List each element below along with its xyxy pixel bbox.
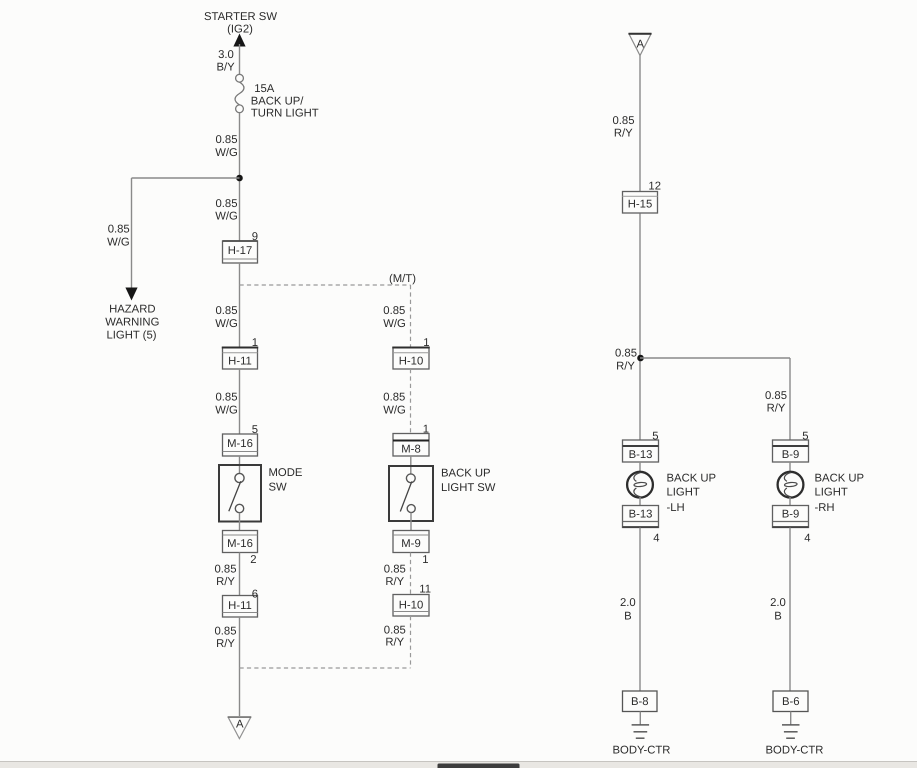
BACK UP LIGHT -RH label [815,473,865,515]
svg-text:LIGHT SW: LIGHT SW [441,482,496,494]
scrollbar track [0,762,917,768]
wire H-11 down to connector A [239,617,241,716]
svg-text:HAZARD: HAZARD [109,304,155,316]
wire label 2.0 B right [770,597,786,623]
connector B-8 [623,691,658,712]
svg-text:12: 12 [648,181,661,193]
svg-text:(M/T): (M/T) [389,273,416,285]
wire M-16 to H-11 pin 6 [239,553,241,596]
svg-text:0.85: 0.85 [215,626,237,638]
svg-text:MODE: MODE [269,467,303,479]
connector B-9 upper [773,440,809,462]
wire label 0.85 W/G above M-16 [215,392,238,417]
connector H-15 [623,192,658,214]
wire label 0.85 R/Y above H-11 [215,564,237,589]
svg-text:LIGHT (5): LIGHT (5) [106,330,156,342]
connector B-9 lower [773,506,809,528]
svg-text:W/G: W/G [215,318,238,330]
wire horizontal to hazard branch [132,177,240,179]
wire label 0.85 R/Y below H-11 [215,626,237,651]
svg-text:B/Y: B/Y [216,62,235,74]
wire H-17 to H-11 [239,263,241,348]
wire label 0.85 W/G above M-8 [383,392,406,417]
svg-text:BODY-CTR: BODY-CTR [613,745,671,757]
svg-text:R/Y: R/Y [216,638,235,650]
lamp BACK UP LIGHT -RH [778,472,804,498]
svg-text:A: A [236,719,244,731]
wire A to H-15 [639,56,641,192]
connector B-13 lower [623,506,659,528]
wire fuse to H-17 [239,113,241,241]
inter-page connector A bottom [228,717,252,739]
svg-text:-LH: -LH [667,502,685,514]
connector H-11 lower [223,596,258,618]
svg-text:15A: 15A [254,83,275,95]
svg-text:WARNING: WARNING [105,317,159,329]
svg-text:B-6: B-6 [782,696,800,708]
svg-text:W/G: W/G [215,405,238,417]
svg-text:-RH: -RH [815,502,835,514]
wire H-15 to B-13 [639,214,641,441]
wire bulb to B-9 lower [789,497,791,506]
connector B-6 [773,691,808,712]
svg-text:0.85: 0.85 [615,348,637,360]
switch MODE SW [219,465,261,522]
wire bulb to B-13 lower [639,497,641,506]
svg-text:R/Y: R/Y [767,403,786,415]
svg-text:W/G: W/G [383,405,406,417]
wire label 0.85 W/G above H-10 [383,305,406,330]
wire RH branch down to B-9 [789,358,791,440]
wire label 0.85 R/Y [613,115,635,140]
connector M-16 upper [223,434,258,456]
ground BODY-CTR right [782,712,800,739]
svg-text:2: 2 [250,554,256,566]
wire B-13 to bulb [639,462,641,472]
wire label 2.0 B left [620,597,636,623]
wire B-9 to bulb [789,462,791,472]
svg-text:STARTER SW: STARTER SW [204,11,277,23]
wire label 3.0 B/Y [216,49,235,74]
svg-text:B: B [774,611,782,623]
svg-text:B-9: B-9 [782,449,800,461]
svg-text:R/Y: R/Y [385,637,404,649]
svg-text:W/G: W/G [215,211,238,223]
wire dashed M-9 to H-10 pin 11 [410,553,412,595]
svg-text:4: 4 [804,533,810,545]
svg-text:0.85: 0.85 [216,305,238,317]
node HAZARD WARNING LIGHT (5) label [105,304,159,342]
wire dashed M/T branch horizontal [240,284,411,286]
wire label 0.85 R/Y at junction [615,348,637,373]
svg-text:M-16: M-16 [227,438,253,450]
svg-text:BACK UP/: BACK UP/ [251,95,305,107]
svg-text:SW: SW [269,482,288,494]
inter-page connector A top [629,34,652,56]
wire H-11 to M-16 [239,369,241,434]
lamp BACK UP LIGHT -LH [627,472,653,498]
svg-text:0.85: 0.85 [216,198,238,210]
arrow to hazard warning light [125,288,137,301]
connector B-13 upper [623,440,659,462]
svg-text:LIGHT: LIGHT [667,487,700,499]
wire label 0.85 W/G hazard branch [107,224,130,249]
svg-text:LIGHT: LIGHT [815,487,848,499]
wire B-9 to B-6 [789,528,791,692]
svg-text:H-15: H-15 [628,199,653,211]
MODE SW label [269,467,303,494]
wire mode sw to M-16 lower [239,513,241,531]
wire M-16 to mode sw [239,456,241,473]
svg-text:H-10: H-10 [399,600,424,612]
wire label 0.85 R/Y above H-10 [384,564,406,589]
svg-text:B-13: B-13 [629,509,653,521]
svg-text:H-17: H-17 [228,245,253,257]
svg-text:W/G: W/G [215,147,238,159]
svg-text:W/G: W/G [107,237,130,249]
switch BACK UP LIGHT SW [389,466,433,521]
wire dashed joining main wire [240,667,411,669]
ground BODY-CTR left [632,712,650,739]
connector H-10 [392,348,429,370]
fuse 15A BACK UP/TURN LIGHT [235,74,244,112]
wire starter sw to fuse [239,44,241,75]
svg-text:H-10: H-10 [399,356,424,368]
svg-text:BACK UP: BACK UP [667,473,717,485]
svg-text:0.85: 0.85 [384,564,406,576]
junction dot to hazard branch [236,175,243,182]
svg-text:2.0: 2.0 [770,597,786,609]
svg-text:H-11: H-11 [228,600,252,612]
svg-text:0.85: 0.85 [765,390,787,402]
svg-text:6: 6 [252,589,258,601]
svg-text:0.85: 0.85 [383,392,405,404]
wire B-13 to B-8 [639,528,641,692]
wire label 0.85 R/Y RH branch [765,390,787,415]
wire back up light sw to M-9 [410,513,412,531]
connector H-11 [222,348,258,370]
BACK UP LIGHT -LH label [667,473,717,515]
svg-text:0.85: 0.85 [613,115,635,127]
wire hazard branch vertical [131,178,133,289]
svg-text:(IG2): (IG2) [227,24,253,36]
svg-text:W/G: W/G [383,318,406,330]
wire dashed H-10 down [410,616,412,668]
svg-text:2.0: 2.0 [620,597,636,609]
svg-text:B-13: B-13 [629,449,653,461]
svg-text:R/Y: R/Y [614,128,633,140]
connector M-16 lower [223,531,258,553]
svg-text:R/Y: R/Y [385,576,404,588]
BACK UP LIGHT SW label [441,468,496,495]
svg-text:R/Y: R/Y [616,361,635,373]
svg-text:4: 4 [653,533,659,545]
svg-text:0.85: 0.85 [216,134,238,146]
svg-text:0.85: 0.85 [383,305,405,317]
wire dashed M/T branch down to H-10 [410,285,412,348]
wire M-8 to back up light sw [410,456,412,474]
svg-text:B: B [624,611,632,623]
svg-text:R/Y: R/Y [216,576,235,588]
svg-text:M-8: M-8 [401,444,420,456]
svg-text:M-9: M-9 [401,538,420,550]
svg-text:3.0: 3.0 [218,49,234,61]
arrow to STARTER SW [233,34,245,47]
svg-text:A: A [637,39,645,51]
node STARTER SW (IG2) label [204,11,277,36]
svg-text:BACK UP: BACK UP [815,473,865,485]
connector M-8 [393,434,429,457]
svg-text:0.85: 0.85 [108,224,130,236]
wire dashed H-10 to M-8 [410,369,412,434]
svg-text:B-8: B-8 [631,696,649,708]
svg-text:BODY-CTR: BODY-CTR [766,745,824,757]
svg-text:0.85: 0.85 [216,392,238,404]
wire label 0.85 W/G above H-11 [215,305,238,330]
scrollbar thumb [438,764,520,768]
svg-text:0.85: 0.85 [384,625,406,637]
wire label 0.85 W/G above H-17 [215,198,238,223]
wire label 0.85 R/Y below H-10 [384,625,406,649]
fuse value label [251,83,319,120]
connector H-10 lower [393,595,429,617]
svg-text:M-16: M-16 [227,538,253,550]
svg-text:B-9: B-9 [782,509,800,521]
svg-text:BACK UP: BACK UP [441,468,491,480]
wire horizontal to RH branch [640,357,790,359]
svg-text:11: 11 [419,584,431,596]
svg-text:0.85: 0.85 [215,564,237,576]
junction dot to RH branch [637,355,644,362]
connector H-17 [223,241,258,263]
svg-text:1: 1 [422,554,428,566]
svg-text:H-11: H-11 [228,356,252,368]
connector M-9 [393,531,429,553]
svg-text:TURN LIGHT: TURN LIGHT [251,108,319,120]
wire label 0.85 W/G [215,134,238,159]
